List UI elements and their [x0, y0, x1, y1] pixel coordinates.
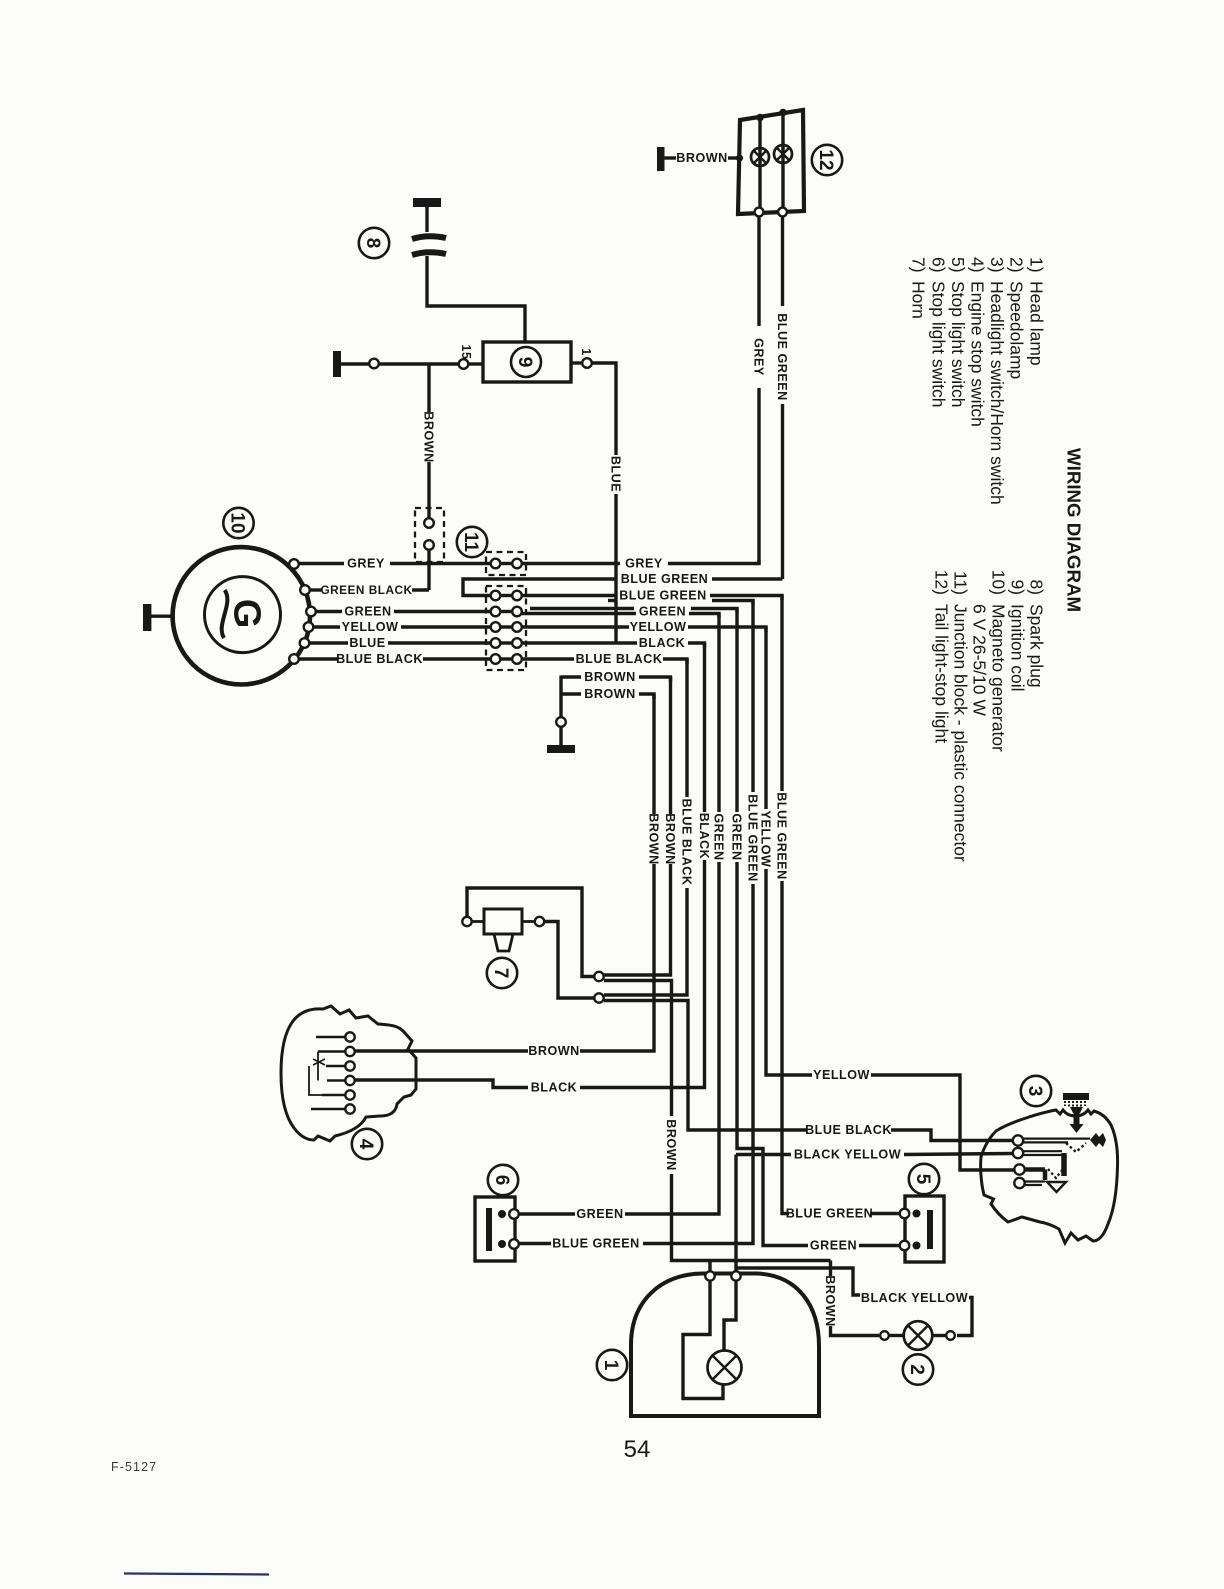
wire horn right terminal — [545, 922, 595, 999]
svg-text:YELLOW: YELLOW — [813, 1068, 870, 1082]
pin switch3 terminal 3 — [1014, 1164, 1024, 1174]
pin speedolamp right — [946, 1331, 955, 1340]
svg-text:BLACK: BLACK — [639, 636, 686, 650]
wire BLUE BLACK junction to horn branch — [522, 657, 574, 660]
svg-text:6: 6 — [491, 1175, 512, 1186]
svg-text:BROWN: BROWN — [663, 813, 677, 864]
pin head lamp right — [731, 1271, 740, 1280]
svg-text:Ignition coil: Ignition coil — [1008, 604, 1028, 692]
wire BLUE from coil terminal 1 — [592, 363, 616, 455]
wire BLUE GREEN bundle (to stop light switch 6) — [751, 601, 754, 793]
svg-text:YELLOW: YELLOW — [342, 620, 399, 634]
svg-text:BLUE BLACK: BLUE BLACK — [576, 652, 663, 666]
svg-text:Headlight switch/Horn switch: Headlight switch/Horn switch — [987, 281, 1007, 505]
wire BLUE BLACK horn to engine stop switch — [604, 1001, 806, 1131]
wire BROWN drop from coil terminal 15 — [427, 364, 430, 412]
wire BLUE GREEN lower fork to bundle — [608, 599, 617, 602]
bulb head lamp — [708, 1351, 742, 1385]
wire BLUE BLACK magneto to junction — [299, 657, 337, 660]
svg-text:BLUE GREEN: BLUE GREEN — [619, 589, 707, 603]
svg-text:4: 4 — [355, 1139, 376, 1150]
pin connector lower — [424, 540, 434, 550]
svg-text:YELLOW: YELLOW — [758, 811, 772, 868]
svg-text:BLUE GREEN: BLUE GREEN — [552, 1237, 640, 1251]
svg-text:F-5127: F-5127 — [111, 1460, 157, 1474]
svg-text:GREEN: GREEN — [810, 1239, 857, 1253]
bulb speedolamp — [904, 1321, 933, 1350]
svg-text:BLACK YELLOW: BLACK YELLOW — [794, 1148, 901, 1162]
ref designator circle 4 — [352, 1129, 382, 1159]
svg-text:15: 15 — [459, 345, 473, 360]
svg-text:GREY: GREY — [751, 338, 765, 376]
svg-text:Horn: Horn — [909, 281, 929, 319]
svg-text:YELLOW: YELLOW — [630, 620, 687, 634]
wire switch4 lead 3 — [326, 1065, 345, 1068]
switch3 serrated contact tip — [1090, 1133, 1106, 1147]
headlight switch-horn switch 4 housing — [281, 1006, 416, 1141]
ref designator circle 7 — [487, 958, 517, 988]
node tail lamp top junction 2 — [779, 109, 787, 117]
wire BROWN horn to head lamp — [604, 981, 672, 1117]
switch6 contact bar — [486, 1208, 492, 1251]
svg-text:Stop light switch: Stop light switch — [948, 281, 968, 407]
switch3 contact bar terminal2 — [1024, 1150, 1063, 1152]
svg-text:BLUE: BLUE — [608, 456, 622, 492]
ground at brown pair — [547, 745, 575, 753]
wire switch4 lead 2 — [318, 1050, 345, 1053]
ground at ignition coil — [333, 351, 341, 377]
wire BROWN bundle (to horn) — [669, 677, 672, 814]
pin switch3 terminal 4 — [1014, 1178, 1024, 1188]
wire GREEN upper fork to bundle — [530, 607, 634, 610]
wire stub to head lamp left pin — [708, 1261, 711, 1272]
wire head lamp right internal — [724, 1281, 736, 1350]
ref designator circle 2 — [903, 1354, 933, 1384]
pin magneto BLUE — [300, 638, 310, 648]
svg-text:BLUE GREEN: BLUE GREEN — [786, 1207, 874, 1221]
wire switch4 lead 6 — [311, 1108, 345, 1111]
engine stop switch 3 housing — [981, 1110, 1118, 1243]
svg-text:BLUE BLACK: BLUE BLACK — [679, 799, 693, 886]
pin switch3 terminal 2 — [1013, 1148, 1023, 1158]
wire tail lamp internal BLUE GREEN branch — [781, 113, 784, 209]
wire coil terminal 15 lead — [469, 362, 483, 365]
bulb tail lamp right — [774, 145, 792, 163]
bulb tail lamp left — [751, 148, 769, 166]
wire BLUE magneto to junction — [310, 641, 349, 644]
svg-text:BROWN: BROWN — [421, 411, 435, 462]
wire GREY junction to tail lamp — [522, 562, 620, 565]
pin switch4 terminal 3 — [345, 1061, 354, 1070]
node connector on coil ground wire — [369, 359, 379, 369]
pin magneto GREEN — [306, 607, 316, 617]
pin junction row 1 left — [500, 594, 512, 597]
svg-text:GREEN: GREEN — [639, 605, 686, 619]
wire ground stem — [559, 676, 562, 718]
switch3 contact bar terminal1 — [1024, 1137, 1091, 1139]
svg-text:6): 6) — [928, 257, 948, 273]
stop light switch 5 body — [905, 1196, 944, 1262]
pin junction GREY right — [512, 559, 522, 569]
wire GREEN bundle (to stop light switch 6) — [717, 614, 720, 813]
node horn junction bottom — [594, 993, 603, 1002]
wire GREEN junction to bundle — [522, 612, 636, 615]
pin horn left — [462, 917, 471, 926]
svg-text:BROWN: BROWN — [646, 813, 660, 864]
svg-text:Magneto generator: Magneto generator — [989, 604, 1009, 752]
svg-text:BLUE BLACK: BLUE BLACK — [805, 1123, 892, 1137]
ref designator circle 10 — [223, 508, 253, 538]
ref designator circle 6 — [488, 1165, 518, 1195]
svg-text:4): 4) — [968, 257, 988, 273]
magneto generator 10 outer body — [173, 547, 310, 684]
svg-text:8): 8) — [1027, 579, 1047, 595]
wire switch4 lead 1 — [316, 1036, 345, 1039]
wire YELLOW bundle (to engine stop switch) — [764, 627, 767, 809]
spark plug gap plate upper — [412, 236, 446, 239]
wire GREEN bundle 2 (to stop light switch 5) — [735, 609, 738, 813]
wire BROWN bundle (to headlight switch) — [652, 694, 655, 814]
pin switch5 bottom — [900, 1241, 910, 1251]
ref designator circle 12 — [812, 145, 842, 175]
wire GREEN BLACK magneto to connector — [310, 588, 322, 591]
svg-text:11: 11 — [460, 532, 481, 553]
switch3 dotted contact V under bar — [1066, 1143, 1086, 1152]
pin magneto GREEN BLACK — [300, 585, 310, 595]
wire GREEN magneto to junction — [316, 610, 342, 613]
svg-text:6 V 26-5/10 W: 6 V 26-5/10 W — [970, 604, 990, 716]
wire head lamp left internal — [683, 1281, 723, 1399]
svg-text:WIRING DIAGRAM: WIRING DIAGRAM — [1064, 448, 1085, 612]
svg-text:1: 1 — [600, 1360, 621, 1371]
svg-text:Speedolamp: Speedolamp — [1007, 281, 1027, 379]
pin tail lamp bottom left — [755, 208, 764, 217]
wire BLUE GREEN bundle 2 (to stop light switch 5) — [780, 596, 783, 792]
svg-text:10): 10) — [989, 570, 1009, 595]
svg-text:GREY: GREY — [625, 557, 663, 571]
magneto inner circle — [205, 577, 281, 653]
pin junction row 1 right — [512, 591, 522, 601]
stop light switch 6 body — [475, 1197, 515, 1261]
horn 7 body — [484, 909, 522, 934]
svg-text:9): 9) — [1008, 579, 1028, 595]
svg-text:8: 8 — [362, 238, 383, 249]
ref designator circle 9 (inside coil) — [511, 347, 541, 377]
pin junction GREY left — [500, 562, 512, 565]
tail light-stop light lamp 12 housing — [738, 110, 804, 214]
wire BLUE GREEN from tail lamp down — [781, 216, 784, 579]
pin junction row 5 left — [500, 657, 512, 660]
svg-text:10: 10 — [227, 512, 248, 533]
svg-text:2: 2 — [906, 1364, 927, 1375]
magneto tilde symbol — [222, 590, 228, 638]
svg-text:GREEN: GREEN — [344, 605, 391, 619]
wire switch4 internal link b — [309, 1066, 322, 1095]
svg-text:11): 11) — [951, 571, 971, 595]
svg-text:G: G — [226, 599, 268, 629]
svg-text:GREEN: GREEN — [711, 813, 725, 860]
pin junction row 4 left — [500, 641, 512, 644]
wire BLACK YELLOW down to head lamp pin — [734, 1155, 737, 1272]
wire GREY from tail lamp down — [757, 216, 760, 563]
ref designator circle 8 — [359, 228, 389, 258]
wire switch4 internal link a — [317, 1052, 319, 1081]
svg-text:BLACK: BLACK — [697, 813, 711, 860]
svg-text:BLUE BLACK: BLUE BLACK — [336, 652, 423, 666]
junction block 11 dashed box A — [486, 552, 526, 575]
svg-text:GREEN: GREEN — [576, 1207, 623, 1221]
pin connector upper — [424, 518, 434, 528]
wire BROWN ground lead at tail light — [664, 156, 676, 159]
pin horn right — [535, 917, 544, 926]
switch3 plunger arrow — [1074, 1113, 1080, 1125]
pin junction row 3 right — [512, 622, 522, 632]
pin switch4 terminal 2 — [345, 1047, 354, 1056]
wire YELLOW junction to bundle — [522, 625, 629, 628]
pin switch4 terminal 4 — [345, 1076, 354, 1085]
svg-text:BLUE GREEN: BLUE GREEN — [774, 792, 788, 880]
svg-text:1: 1 — [579, 348, 593, 355]
svg-text:BLUE GREEN: BLUE GREEN — [745, 794, 759, 882]
head lamp 1 housing dome — [631, 1274, 819, 1417]
svg-text:7: 7 — [490, 968, 511, 979]
svg-text:7): 7) — [909, 257, 929, 273]
svg-text:GREEN: GREEN — [729, 813, 743, 860]
node switch6 bottom contact — [498, 1240, 506, 1248]
svg-text:3: 3 — [1024, 1086, 1045, 1097]
spark plug gap plate lower — [412, 252, 446, 255]
ignition coil 9 body — [483, 342, 571, 382]
pin coil terminal 1 — [571, 361, 581, 364]
pin junction row 5 right — [512, 654, 522, 664]
pin magneto BLUE BLACK — [289, 654, 299, 664]
wire BROWN down to speedolamp — [829, 1261, 832, 1277]
wire BLACK YELLOW (to engine stop switch) — [736, 1153, 791, 1156]
junction block 11 dashed box B — [486, 586, 526, 670]
ground at tail light — [657, 147, 665, 171]
pin switch4 terminal 1 — [345, 1032, 354, 1041]
pin switch5 top — [900, 1209, 910, 1219]
wire horn terminal stubs — [471, 920, 484, 923]
svg-text:Tail light-stop light: Tail light-stop light — [932, 604, 952, 743]
svg-text:Head lamp: Head lamp — [1026, 281, 1046, 366]
wire tail lamp internal GREY branch — [758, 118, 761, 209]
node switch5 bottom contact — [913, 1242, 921, 1250]
svg-text:GREY: GREY — [347, 557, 385, 571]
switch4 wiper marks — [313, 1059, 325, 1065]
wire BLUE GREEN junction row to bundle — [522, 594, 616, 597]
scan artifact blue rule bottom left — [124, 1574, 269, 1575]
svg-text:Spark plug: Spark plug — [1027, 604, 1047, 688]
wire switch4 lead 4 — [327, 1079, 345, 1082]
svg-text:BLACK YELLOW: BLACK YELLOW — [861, 1291, 968, 1305]
svg-text:BROWN: BROWN — [664, 1119, 678, 1170]
node tail lamp top junction 1 — [756, 114, 764, 122]
svg-text:BROWN: BROWN — [823, 1275, 837, 1326]
svg-text:BROWN: BROWN — [584, 670, 635, 684]
ref designator circle 1 — [597, 1350, 627, 1380]
svg-text:BLUE: BLUE — [349, 636, 385, 650]
node switch6 top contact — [498, 1210, 506, 1218]
wire branch head lamp pin to speedolamp — [736, 1268, 860, 1295]
pin junction row 2 left — [500, 610, 512, 613]
pin junction row 3 left — [500, 625, 512, 628]
wire BLUE BLACK bundle (to horn) — [685, 659, 688, 797]
pin coil terminal 15 — [459, 359, 469, 369]
ref designator circle 3 — [1021, 1076, 1051, 1106]
svg-text:2): 2) — [1007, 257, 1027, 273]
svg-text:3): 3) — [987, 257, 1007, 273]
pin junction row 4 right — [512, 638, 522, 648]
svg-text:12: 12 — [815, 149, 836, 170]
svg-text:Engine stop switch: Engine stop switch — [968, 281, 988, 427]
switch3 thick bar terminal3 — [1025, 1167, 1045, 1172]
svg-text:5): 5) — [948, 257, 968, 273]
wire BROWN row 1 from ground stem — [561, 675, 581, 678]
wire terminal 15 to ground — [341, 362, 459, 365]
wire connector to GREEN BLACK row — [427, 550, 430, 590]
svg-text:BLACK: BLACK — [531, 1081, 578, 1095]
svg-text:BROWN: BROWN — [528, 1044, 579, 1058]
switch3 dotted V near terminal3 — [1048, 1169, 1063, 1178]
svg-text:12): 12) — [932, 570, 952, 595]
pin speedolamp left — [880, 1331, 889, 1340]
ref designator circle 11 — [457, 527, 487, 557]
svg-text:BLUE GREEN: BLUE GREEN — [775, 313, 789, 401]
switch5 contact bar — [927, 1210, 933, 1249]
pin magneto GREY — [289, 559, 299, 569]
svg-text:BROWN: BROWN — [584, 687, 635, 701]
svg-text:5: 5 — [912, 1174, 933, 1185]
switch3 thick elbow from terminal2 — [1061, 1153, 1067, 1176]
svg-text:1): 1) — [1026, 257, 1046, 273]
pin switch6 bottom — [509, 1239, 519, 1249]
pin magneto YELLOW — [304, 622, 314, 632]
wire BLACK junction to bundle (joined by coil BLUE) — [522, 641, 637, 644]
node BROWN joins tail housing — [736, 154, 743, 161]
wire BLUE GREEN tail lamp row to junction elbow — [712, 577, 783, 580]
svg-text:BLUE GREEN: BLUE GREEN — [621, 572, 709, 586]
wire GREY magneto to junction — [299, 562, 344, 565]
pin junction row 2 right — [512, 607, 522, 617]
wire spark plug top lead — [425, 207, 428, 232]
ground at magneto — [143, 604, 151, 631]
switch3 open V contact — [1047, 1182, 1066, 1192]
wire BROWN row 2 from ground stem — [561, 692, 581, 695]
svg-text:54: 54 — [624, 1436, 651, 1463]
pin switch3 terminal 1 — [1013, 1135, 1023, 1145]
pin switch4 terminal 5 — [345, 1090, 354, 1099]
wire magneto ground lead — [151, 615, 174, 618]
junction connector on BROWN coil wire (dashed) — [415, 508, 444, 562]
node horn junction top — [594, 972, 603, 981]
svg-text:GREEN BLACK: GREEN BLACK — [320, 583, 412, 597]
node switch5 top contact — [913, 1210, 921, 1218]
wire YELLOW magneto to junction — [314, 625, 341, 628]
switch3 plunger neck — [1070, 1107, 1083, 1113]
pin switch6 top — [509, 1209, 519, 1219]
svg-text:Junction block - plastic conne: Junction block - plastic connector — [951, 604, 971, 862]
wire speedolamp leads — [889, 1334, 904, 1337]
pin head lamp left — [705, 1271, 714, 1280]
wire BLACK bundle (to headlight switch) — [703, 643, 706, 812]
node ground stem connector — [556, 717, 566, 727]
wire switch4 lead 5 — [322, 1094, 345, 1097]
spark plug 8 top electrode bar — [413, 198, 441, 207]
wire horn left terminal loop — [467, 888, 594, 977]
svg-text:BROWN: BROWN — [676, 151, 727, 165]
switch3 plunger cap (hatched) — [1063, 1093, 1089, 1100]
svg-text:9: 9 — [514, 357, 535, 368]
ref designator circle 5 — [909, 1164, 939, 1194]
pin switch4 terminal 6 — [345, 1104, 354, 1113]
wire spark plug to ignition coil HT lead — [427, 256, 525, 342]
switch3 bar terminal4 — [1025, 1180, 1045, 1182]
horn trumpet — [494, 934, 513, 951]
svg-text:Stop light switch: Stop light switch — [928, 281, 948, 407]
pin tail lamp bottom right — [778, 208, 787, 217]
